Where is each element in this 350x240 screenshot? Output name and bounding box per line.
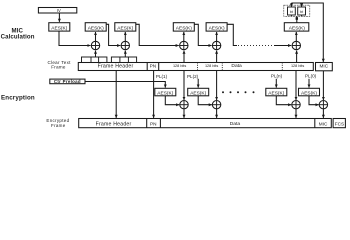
svg-text:Frame: Frame bbox=[51, 65, 66, 70]
svg-text:Data: Data bbox=[230, 121, 241, 127]
svg-text:AES(K): AES(K) bbox=[268, 91, 284, 97]
svg-text:AES(K): AES(K) bbox=[176, 26, 192, 32]
svg-text:Frame Header: Frame Header bbox=[98, 63, 134, 69]
svg-text:bt: bt bbox=[300, 10, 303, 14]
svg-text:AES(K): AES(K) bbox=[289, 26, 305, 32]
wire X5 to U6 bbox=[295, 32, 297, 41]
XOR Yn bbox=[292, 101, 300, 109]
svg-text:Encryption: Encryption bbox=[1, 94, 35, 101]
XOR Y0 bbox=[319, 101, 327, 109]
svg-text:128 bits: 128 bits bbox=[291, 64, 304, 68]
AES block E0 bbox=[299, 88, 320, 96]
label MIC Calculation bbox=[1, 27, 35, 40]
wire truncation to U6 bbox=[296, 16, 298, 22]
XOR Y2 bbox=[212, 101, 220, 109]
svg-text:PL(1): PL(1) bbox=[156, 74, 168, 79]
muted header blocks group 1 bbox=[82, 57, 107, 63]
svg-text:AES(K): AES(K) bbox=[157, 91, 173, 97]
wire X4 to U5 bbox=[216, 32, 218, 41]
svg-text:AES(K): AES(K) bbox=[88, 26, 104, 32]
wire En output to Yn bbox=[276, 96, 291, 105]
Ctr Preload register bbox=[50, 79, 85, 84]
wire into X5 bbox=[274, 45, 291, 47]
svg-text:PN: PN bbox=[150, 63, 157, 68]
wire U3 output to X3 bbox=[136, 24, 179, 45]
svg-text:PL(2): PL(2) bbox=[187, 74, 199, 79]
label Clear Text Frame bbox=[48, 60, 72, 70]
svg-text:FCS: FCS bbox=[335, 121, 344, 126]
encrypted frame bar bbox=[79, 119, 332, 128]
svg-text:Calculation: Calculation bbox=[1, 34, 35, 41]
svg-text:MIC: MIC bbox=[320, 64, 329, 69]
wire U4 output to X4 bbox=[194, 24, 211, 45]
wire header block to X1 bbox=[95, 51, 97, 57]
dotted continuation wire bbox=[238, 45, 274, 47]
svg-text:Ctr Preload: Ctr Preload bbox=[54, 79, 81, 84]
svg-text:PL(0): PL(0) bbox=[305, 74, 317, 79]
svg-text:AES(K): AES(K) bbox=[51, 26, 67, 32]
wire U2 output to X2 bbox=[106, 24, 120, 45]
AES block E2 bbox=[188, 88, 209, 96]
wire data block 2 into Y2 bbox=[216, 71, 218, 101]
wire data block 1 into Y1 bbox=[183, 71, 185, 101]
XOR Y1 bbox=[180, 101, 188, 109]
wire into right truncation cell bbox=[301, 5, 303, 7]
IV register bbox=[38, 8, 76, 14]
AES block U5 bbox=[206, 23, 227, 32]
wire PL(n) to AES En bbox=[275, 79, 277, 88]
wire MIC result to clear MIC box bbox=[291, 3, 323, 62]
wire right truncation cell output bbox=[301, 15, 303, 16]
wire Y1 to encrypted frame bbox=[183, 109, 185, 118]
wire X2 to U3 bbox=[124, 32, 126, 41]
wire X1 to U2 bbox=[95, 32, 97, 41]
wire U1 output to X1 bbox=[59, 31, 91, 45]
AES block U4 bbox=[173, 23, 194, 32]
wire header column to encrypted frame bbox=[115, 71, 117, 118]
svg-text:MIC: MIC bbox=[319, 121, 328, 126]
wire E1 output to Y1 bbox=[165, 96, 179, 105]
wire MIC into Y0 bbox=[322, 71, 324, 100]
svg-text:AES(K): AES(K) bbox=[117, 26, 133, 32]
wire data block to X5 bbox=[296, 51, 298, 63]
AES block En bbox=[266, 88, 287, 96]
svg-text:Data: Data bbox=[231, 63, 242, 69]
svg-text:AES(K): AES(K) bbox=[190, 91, 206, 97]
AES block U6 bbox=[284, 23, 309, 32]
wire data block to X4 bbox=[216, 51, 218, 63]
XOR X3 bbox=[180, 41, 188, 49]
wire header block to X2 bbox=[124, 51, 126, 57]
svg-text:PN: PN bbox=[150, 121, 157, 126]
wire data block n into Yn bbox=[295, 71, 297, 101]
svg-text:AES(K): AES(K) bbox=[209, 26, 225, 32]
wire Yn to encrypted frame bbox=[295, 109, 297, 118]
svg-text:128 bits: 128 bits bbox=[205, 64, 218, 68]
ellipsis dots between E2 and En bbox=[222, 91, 255, 93]
svg-text:PL(n): PL(n) bbox=[271, 74, 283, 79]
XOR X1 bbox=[91, 41, 99, 49]
svg-text:128 bits: 128 bits bbox=[173, 64, 186, 68]
XOR X4 bbox=[212, 41, 220, 49]
wire Y0 to encrypted frame bbox=[322, 109, 324, 118]
svg-text:Frame Header: Frame Header bbox=[96, 121, 132, 127]
clear MIC box bbox=[316, 63, 333, 71]
muted header blocks group 2 bbox=[111, 57, 136, 63]
clear text frame bar bbox=[78, 63, 313, 71]
wire E2 output to Y2 bbox=[198, 96, 212, 105]
wire PL(2) to AES E2 bbox=[197, 79, 199, 88]
AES block U1 bbox=[49, 23, 70, 32]
label Encrypted Frame bbox=[46, 118, 69, 128]
wire left truncation cell output bbox=[290, 15, 292, 16]
wire X3 to U4 bbox=[183, 32, 185, 41]
truncation block (64-bit MIC select) bbox=[284, 5, 310, 16]
junction dot truncation output bbox=[296, 17, 298, 20]
wire data block to X3 bbox=[183, 51, 185, 63]
wire PN column to encrypted frame bbox=[153, 71, 155, 118]
wire Y2 to encrypted frame bbox=[216, 109, 218, 118]
XOR X5 bbox=[292, 41, 300, 49]
wire IV to U1 bbox=[58, 13, 60, 22]
encrypted FCS box bbox=[333, 119, 345, 128]
svg-text:IV: IV bbox=[57, 8, 61, 13]
svg-text:Frame: Frame bbox=[51, 123, 66, 128]
svg-text:bt: bt bbox=[290, 10, 293, 14]
wire U5 output (hook) bbox=[227, 24, 237, 45]
XOR X2 bbox=[121, 41, 129, 49]
wire PL(0) to AES E0 bbox=[308, 79, 310, 88]
wire E0 output to Y0 bbox=[309, 96, 319, 105]
svg-text:AES(K): AES(K) bbox=[301, 91, 317, 97]
wire Ctr Preload to AES E1 bbox=[85, 82, 165, 88]
AES block E1 bbox=[155, 88, 176, 96]
wire into left truncation cell bbox=[290, 3, 292, 7]
AES block U2 bbox=[85, 23, 106, 32]
AES block U3 bbox=[115, 23, 136, 32]
